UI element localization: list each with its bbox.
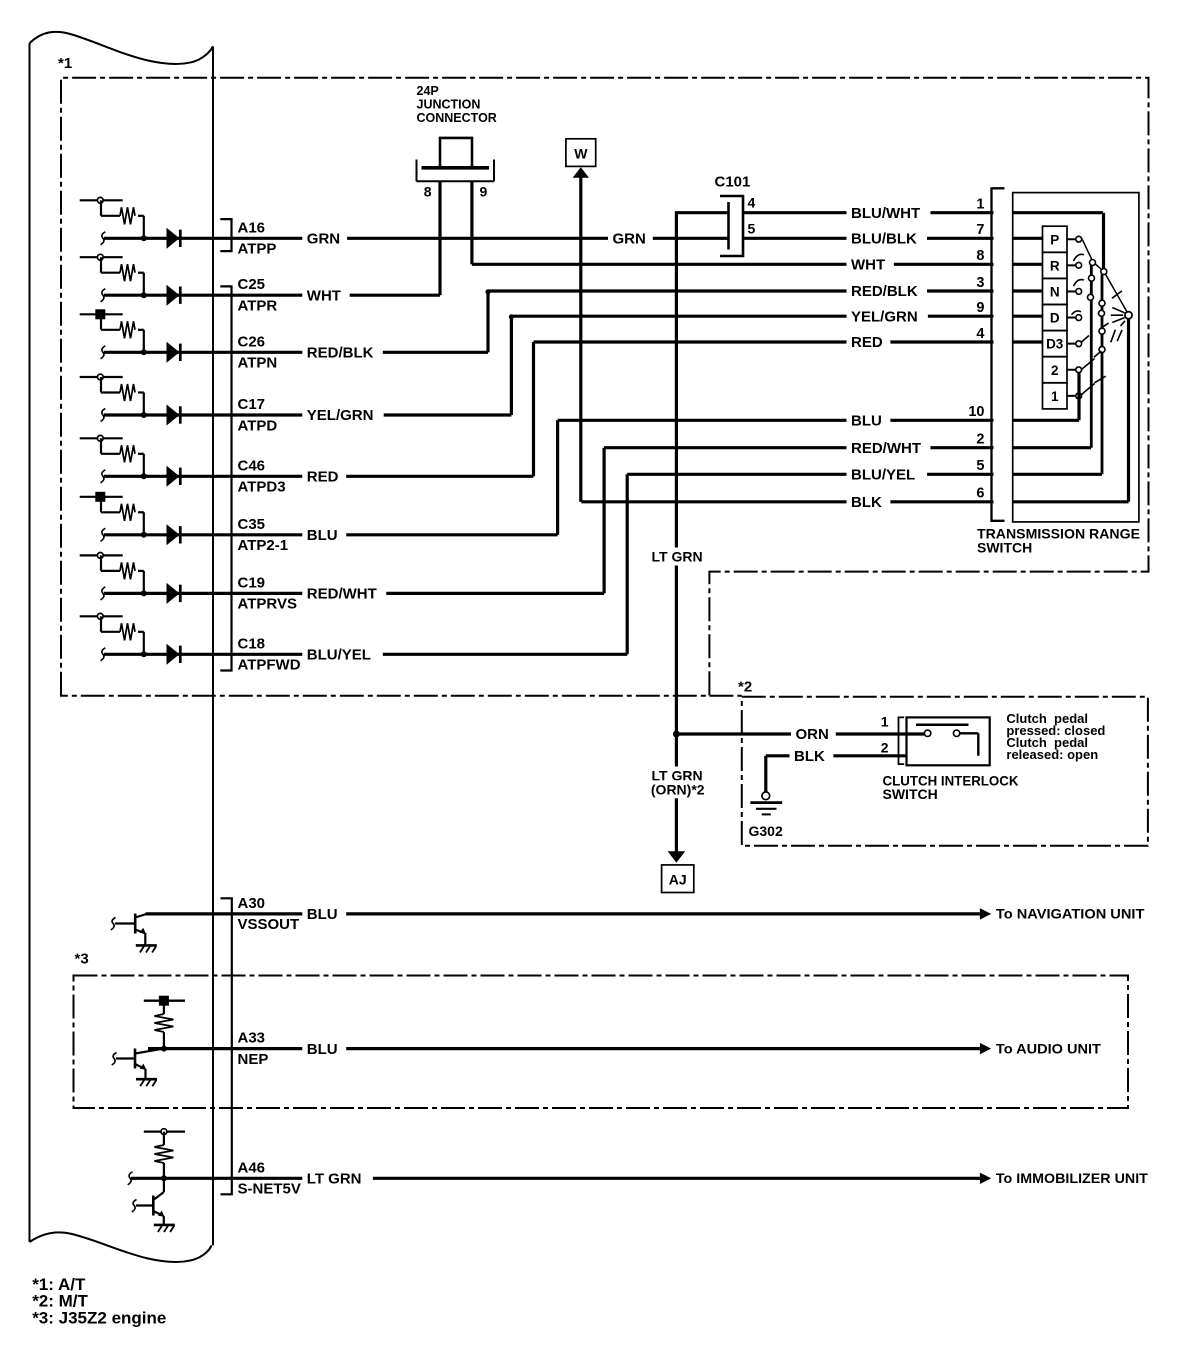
wire from terminal to resistor cell 5 (100, 438, 102, 454)
svg-text:6: 6 (976, 486, 984, 502)
svg-text:RED/WHT: RED/WHT (851, 440, 921, 457)
ground at Q1 (136, 944, 157, 947)
svg-text:WHT: WHT (851, 257, 885, 274)
svg-text:9: 9 (976, 300, 984, 316)
gear position box N (1043, 278, 1068, 304)
wire colour label RED/WHT (302, 584, 386, 602)
svg-text:8: 8 (424, 184, 432, 200)
svg-text:YEL/GRN: YEL/GRN (307, 407, 374, 424)
svg-text:*1: *1 (58, 55, 72, 72)
wire resistor to junction cell 8 (138, 631, 144, 633)
pull-up terminal bar cell 5 (80, 437, 123, 439)
svg-text:BLU: BLU (307, 906, 338, 923)
svg-text:C26: C26 (238, 333, 266, 350)
wire BLU/YEL jog vertical (626, 474, 629, 654)
terminal open circle A46 (161, 1129, 167, 1135)
svg-text:(ORN)*2: (ORN)*2 (651, 782, 705, 798)
transistor Q1 (VSSOUT) base tick (111, 918, 116, 931)
pull-up terminal bar cell 6 (80, 496, 123, 498)
contact stub and circle D3 (1067, 343, 1076, 345)
wire BLU/WHT right row (pin 1) (743, 211, 994, 214)
wire 2/1 contacts to pin 10 (1077, 372, 1080, 421)
wiper contact circle on BLU/WHT feed (1102, 213, 1105, 269)
arrow down to AJ (668, 851, 686, 863)
clutch switch contact 2 (953, 730, 959, 736)
svg-text:3: 3 (976, 275, 984, 291)
wire BLK from clutch switch to ground (766, 754, 907, 757)
terminal solid square cell 3 (95, 309, 105, 319)
contact stub and circle P (1067, 238, 1076, 240)
svg-text:RED/BLK: RED/BLK (307, 345, 374, 362)
wire BLU/BLK right row (pin 7) (743, 237, 994, 240)
terminal solid square cell 6 (95, 492, 105, 502)
transmission range switch box (1013, 193, 1139, 522)
wire RED right row (pin 4) (534, 340, 994, 343)
pull-up terminal bar cell 3 (80, 313, 123, 315)
contact stub and circle R (1067, 264, 1076, 266)
diode cell 3 (167, 342, 180, 363)
PCM/ECU band bottom torn wave (30, 1232, 212, 1262)
arrow To AUDIO UNIT (980, 1043, 991, 1054)
svg-text:C46: C46 (238, 457, 266, 474)
clutch switch internal wire pin2 (960, 732, 979, 734)
svg-text:1: 1 (1051, 389, 1059, 404)
svg-text:24P: 24P (417, 84, 439, 98)
wire resistor to junction cell 7 (138, 570, 144, 572)
svg-text:2: 2 (1051, 363, 1059, 378)
switch tick mark cell 5 (101, 470, 106, 483)
resistor R (NEP) (163, 1001, 165, 1014)
wire BLK right row (pin 6) (581, 500, 993, 503)
arrow To NAVIGATION UNIT (980, 908, 991, 919)
contact stub and circle D (1067, 317, 1076, 319)
svg-text:BLU/YEL: BLU/YEL (851, 467, 915, 484)
contact stub and circle 1 (1067, 395, 1076, 397)
transistor Q2 (NEP) base tick (112, 1053, 117, 1066)
wire colour label RED/BLK (302, 343, 383, 361)
junction dot cell 1 (141, 235, 147, 241)
wire RED jog vertical (532, 342, 535, 476)
junction dot cell 8 (141, 651, 147, 657)
svg-text:D3: D3 (1046, 337, 1064, 352)
motion slash marks (1112, 291, 1122, 298)
svg-text:BLU/YEL: BLU/YEL (307, 647, 371, 664)
junction dot A46 (161, 1175, 167, 1181)
gear position box 1 (1043, 383, 1068, 409)
svg-text:To AUDIO UNIT: To AUDIO UNIT (996, 1040, 1101, 1056)
svg-text:LT GRN: LT GRN (652, 549, 703, 565)
connector AJ box (662, 865, 694, 893)
wire colour label RED (302, 467, 346, 485)
clutch connector bracket (899, 717, 905, 764)
label LT GRN (ORN)*2 (647, 767, 714, 785)
contact stub and circle 2 (1067, 369, 1076, 371)
resistor cell 7 (120, 562, 135, 579)
ground G302 (762, 792, 770, 800)
svg-text:C35: C35 (238, 516, 266, 533)
resistor cell 5 (120, 445, 135, 462)
terminal open circle cell 7 (97, 553, 103, 559)
wire BLU right row (pin 10) (558, 419, 994, 422)
range switch connector bracket (992, 188, 1005, 521)
junction dot cell 7 (141, 590, 147, 596)
wire resistor to junction cell 3 (138, 329, 144, 331)
pull-up terminal bar cell 8 (80, 615, 123, 617)
svg-text:C18: C18 (238, 635, 266, 652)
svg-text:10: 10 (968, 404, 984, 420)
gear position box P (1043, 226, 1068, 252)
svg-text:*3: J35Z2 engine: *3: J35Z2 engine (32, 1308, 166, 1327)
switch tick mark cell 6 (101, 528, 106, 541)
svg-text:5: 5 (748, 221, 756, 237)
svg-text:BLK: BLK (851, 494, 882, 511)
transistor Q3 (S-NET5V) base tick (132, 1200, 137, 1213)
svg-text:ATPR: ATPR (238, 298, 278, 315)
svg-text:7: 7 (976, 222, 984, 238)
junction dot cell 4 (141, 412, 147, 418)
svg-text:GRN: GRN (307, 231, 340, 248)
wire from terminal to resistor cell 3 (100, 314, 102, 330)
clutch interlock switch box (907, 717, 990, 765)
wire BLK vertical to W (579, 177, 582, 502)
wire C17 YEL/GRN left row (104, 413, 511, 416)
switch tick mark cell 2 (101, 289, 106, 302)
pull-up terminal bar cell 7 (80, 554, 123, 556)
svg-text:SWITCH: SWITCH (883, 786, 938, 802)
svg-text:4: 4 (748, 195, 756, 211)
svg-text:*2: *2 (738, 678, 752, 695)
pull-up terminal bar cell 2 (80, 256, 123, 258)
connector bracket A16 (220, 219, 231, 251)
24P junction connector symbol (416, 160, 418, 182)
wiper chain vertical to pin 2 (1090, 263, 1093, 448)
diode cell 1 (167, 228, 180, 249)
wire resistor to junction cell 4 (138, 391, 144, 393)
diode cell 8 (167, 644, 180, 665)
dash-dot link to *2 box (709, 695, 741, 697)
wire colour label BLU/YEL (302, 645, 383, 663)
terminal open circle cell 1 (97, 197, 103, 203)
wiper pivot (1125, 312, 1132, 319)
switch tick mark cell 1 (101, 232, 106, 245)
wire A30 BLU row (146, 912, 980, 915)
junction dot cell 6 (141, 532, 147, 538)
wire A46 LT GRN row (131, 1177, 980, 1180)
svg-text:ATPN: ATPN (238, 355, 278, 372)
svg-text:2: 2 (881, 740, 889, 756)
wire resistor to junction cell 6 (138, 511, 144, 513)
wire RED/WHT jog vertical (602, 448, 605, 594)
gear position box D3 (1043, 331, 1068, 357)
terminal solid square A33 (159, 996, 169, 1006)
contact arms 2 and 1 (1082, 359, 1095, 370)
wire RED/BLK jog vertical (486, 291, 489, 352)
terminal open circle cell 2 (97, 254, 103, 260)
svg-text:JUNCTION: JUNCTION (417, 98, 481, 112)
PCM/ECU band top torn wave (30, 32, 214, 64)
terminal open circle cell 8 (97, 613, 103, 619)
wire colour label GRN (302, 229, 347, 247)
transistor Q3 (152, 1196, 155, 1216)
svg-text:RED: RED (851, 334, 883, 351)
svg-text:ATPFWD: ATPFWD (238, 657, 301, 674)
svg-text:*3: *3 (75, 951, 89, 968)
switch tick mark cell 7 (101, 587, 106, 600)
connector bracket C25-C18 (220, 286, 231, 670)
wire C19 RED/WHT left row (104, 592, 604, 595)
junction dot LT GRN / ORN (673, 731, 680, 738)
svg-text:AJ: AJ (669, 871, 687, 887)
svg-text:LT GRN: LT GRN (307, 1171, 362, 1188)
svg-text:NEP: NEP (238, 1051, 269, 1068)
wire BLU jog vertical (556, 420, 559, 535)
svg-text:RED/WHT: RED/WHT (307, 586, 377, 603)
svg-text:C19: C19 (238, 574, 266, 591)
wire WHT right row (pin 8) (472, 263, 994, 266)
resistor cell 8 (120, 623, 135, 640)
svg-text:D: D (1050, 311, 1060, 326)
wire C18 BLU/YEL left row (104, 653, 627, 656)
svg-text:W: W (574, 145, 588, 161)
svg-text:5: 5 (976, 458, 984, 474)
gear position box 2 (1043, 357, 1068, 383)
ground at Q3 (154, 1224, 175, 1227)
connector C101 symbol (720, 196, 743, 256)
svg-text:8: 8 (976, 248, 984, 264)
wire BLU/WHT to LT GRN corner (675, 211, 678, 851)
wire colour label WHT (302, 286, 349, 304)
svg-text:RED: RED (307, 469, 339, 486)
connector W box (566, 139, 596, 167)
pivot rays (1112, 308, 1124, 313)
resistor cell 3 (120, 321, 135, 338)
svg-text:G302: G302 (749, 823, 783, 839)
svg-text:ATPP: ATPP (238, 241, 277, 258)
svg-text:SWITCH: SWITCH (977, 540, 1032, 556)
transistor Q1 (134, 914, 137, 934)
wire from terminal to resistor cell 4 (100, 377, 102, 393)
svg-text:1: 1 (976, 197, 984, 213)
terminal open circle cell 5 (97, 435, 103, 441)
svg-text:ATPD3: ATPD3 (238, 479, 286, 496)
wire colour label GRN (at C101) (608, 229, 653, 247)
svg-text:N: N (1050, 284, 1060, 299)
clutch switch contact 1 (924, 730, 930, 736)
wire C35 BLU left row (104, 533, 558, 536)
box *2 (M/T) dash-dot border (742, 697, 1148, 846)
junction dot cell 2 (141, 292, 147, 298)
wiper arm diagonal P to pivot (1082, 239, 1129, 315)
switch tick A46 wire (128, 1172, 133, 1185)
svg-text:A33: A33 (238, 1030, 266, 1047)
wire RED/WHT right row (pin 2) (604, 446, 993, 449)
svg-text:4: 4 (976, 326, 984, 342)
svg-text:A46: A46 (238, 1159, 266, 1176)
pull-up terminal bar A46 (144, 1130, 185, 1132)
junction dot RED/BLK corner (485, 289, 490, 294)
svg-text:CONNECTOR: CONNECTOR (417, 111, 497, 125)
svg-text:ATPD: ATPD (238, 417, 278, 434)
pull-up terminal bar cell 1 (80, 199, 123, 201)
svg-text:BLU/WHT: BLU/WHT (851, 205, 920, 222)
wire colour label BLU (302, 526, 346, 544)
wire A16 GRN left row (104, 237, 728, 240)
svg-text:ORN: ORN (796, 726, 829, 743)
switch tick mark cell 3 (101, 346, 106, 359)
transistor Q2 base wire (116, 1057, 135, 1059)
contact hooks R N D D3 (1074, 254, 1085, 261)
pull-up terminal bar cell 4 (80, 376, 123, 378)
svg-text:WHT: WHT (307, 287, 341, 304)
svg-text:BLU: BLU (307, 1041, 338, 1058)
wiper chain vertical to pin 5 (1101, 275, 1104, 475)
label LT GRN (647, 548, 714, 566)
svg-text:released: open: released: open (1006, 747, 1098, 762)
wire from terminal to resistor cell 1 (100, 200, 102, 216)
wire C46 RED left row (104, 475, 534, 478)
resistor cell 4 (120, 384, 135, 401)
wire from terminal to resistor cell 6 (100, 497, 102, 513)
svg-text:C101: C101 (715, 174, 751, 191)
svg-text:RED/BLK: RED/BLK (851, 283, 918, 300)
svg-text:BLU: BLU (851, 413, 882, 430)
svg-text:BLK: BLK (794, 748, 825, 765)
pull-up terminal bar A33 (144, 1000, 185, 1002)
svg-text:VSSOUT: VSSOUT (238, 916, 300, 933)
wire resistor to junction cell 2 (138, 272, 144, 274)
svg-text:1: 1 (881, 714, 889, 730)
wire ORN to clutch interlock switch (676, 732, 924, 735)
diode cell 5 (167, 466, 180, 487)
PCM/ECU band left edge (29, 43, 31, 1242)
svg-text:YEL/GRN: YEL/GRN (851, 308, 918, 325)
diode cell 6 (167, 524, 180, 545)
gear position box R (1043, 252, 1068, 278)
wire C26 RED/BLK left row (104, 351, 488, 354)
wire YEL/GRN jog vertical (510, 316, 513, 415)
box *1 (A/T) dash-dot border (61, 78, 1149, 696)
switch tick mark cell 8 (101, 648, 106, 661)
svg-text:S-NET5V: S-NET5V (238, 1181, 301, 1198)
svg-text:ATPRVS: ATPRVS (238, 596, 297, 613)
diode cell 2 (167, 285, 180, 306)
wire RED/BLK right row (pin 3) (488, 289, 994, 292)
transistor Q2 (134, 1049, 137, 1069)
svg-text:BLU/BLK: BLU/BLK (851, 231, 917, 248)
svg-text:9: 9 (480, 184, 488, 200)
switch tick mark cell 4 (101, 409, 106, 422)
diode cell 4 (167, 405, 180, 426)
wire BLU/YEL right row (pin 5) (627, 473, 993, 476)
wire from terminal to resistor cell 7 (100, 555, 102, 571)
contact stub and circle N (1067, 290, 1076, 292)
clutch switch moving contact bar (916, 723, 969, 726)
svg-text:BLU: BLU (307, 527, 338, 544)
transistor Q1 base wire (115, 922, 135, 924)
svg-text:C17: C17 (238, 396, 266, 413)
svg-text:P: P (1050, 232, 1059, 247)
svg-text:A16: A16 (238, 219, 266, 236)
svg-text:2: 2 (976, 432, 984, 448)
wire from terminal to resistor cell 8 (100, 616, 102, 632)
resistor R (S-NET5V) (163, 1132, 165, 1145)
connector bracket A30-A46 (221, 898, 232, 1194)
wire YEL/GRN right row (pin 9) (511, 315, 993, 318)
svg-text:ATP2-1: ATP2-1 (238, 537, 289, 554)
resistor cell 2 (120, 264, 135, 281)
svg-text:C25: C25 (238, 276, 266, 293)
svg-text:To NAVIGATION UNIT: To NAVIGATION UNIT (996, 906, 1145, 922)
gear position box D (1043, 305, 1068, 331)
svg-text:To IMMOBILIZER UNIT: To IMMOBILIZER UNIT (996, 1170, 1148, 1186)
wire resistor to junction cell 1 (138, 215, 144, 217)
junction dot cell 5 (141, 473, 147, 479)
junction dot YEL/GRN corner (509, 314, 514, 319)
wire C25 WHT left row (104, 294, 440, 297)
wire dot down to transistor Q3 (163, 1178, 165, 1192)
wire A33 BLU row (148, 1047, 980, 1050)
junction dot A33 (161, 1046, 167, 1052)
resistor cell 6 (120, 504, 135, 521)
arrow To IMMOBILIZER UNIT (980, 1173, 991, 1184)
svg-text:GRN: GRN (613, 231, 646, 248)
ground at Q2 (136, 1078, 157, 1081)
wire from terminal to resistor cell 2 (100, 257, 102, 273)
terminal open circle cell 4 (97, 374, 103, 380)
svg-text:R: R (1050, 258, 1060, 273)
junction dot cell 3 (141, 349, 147, 355)
arrow up to W (573, 167, 589, 178)
transistor Q3 base wire (136, 1204, 153, 1206)
diode cell 7 (167, 583, 180, 604)
box *3 (J35Z2 engine) dash-dot border (74, 976, 1129, 1109)
PCM/ECU band right edge (212, 46, 214, 1245)
resistor cell 1 (120, 207, 135, 224)
wire colour label YEL/GRN (302, 406, 383, 424)
wire resistor to junction cell 5 (138, 453, 144, 455)
svg-text:A30: A30 (238, 895, 266, 912)
